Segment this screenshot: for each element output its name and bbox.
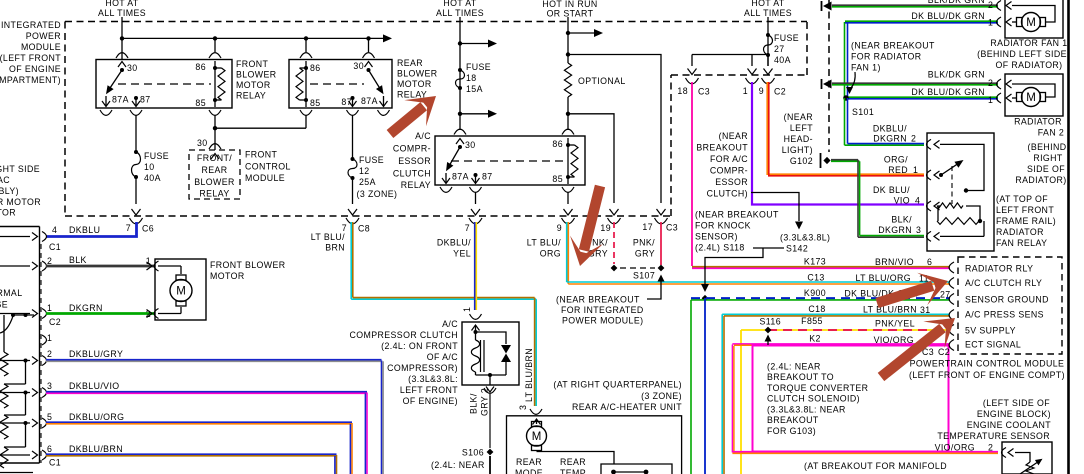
connector C2 pin 9 (759, 78, 786, 97)
svg-text:BLOWER: BLOWER (194, 177, 235, 187)
svg-text:7: 7 (465, 223, 470, 233)
connector pin 5 dkblu org arc (0, 412, 52, 428)
callout near breakout for knock sensor (695, 210, 779, 253)
wire f855 pnk yel 5v supply (741, 330, 950, 474)
svg-text:(AT BREAKOUT FOR MANIFOLD: (AT BREAKOUT FOR MANIFOLD (804, 461, 947, 471)
svg-text:17: 17 (642, 222, 653, 232)
svg-text:(AT TOP OF: (AT TOP OF (996, 194, 1048, 204)
svg-text:DK BLU/DK GRN: DK BLU/DK GRN (911, 87, 985, 97)
svg-text:FOR RADIATOR: FOR RADIATOR (851, 52, 921, 62)
callout near breakout for radiator fan 1 (846, 41, 935, 95)
svg-text:A/C: A/C (442, 319, 458, 329)
wire rear relay 87 to fuse 12 (352, 115, 354, 159)
svg-text:85: 85 (310, 98, 321, 108)
svg-text:2: 2 (911, 134, 916, 144)
svg-text:1: 1 (988, 95, 993, 105)
label thermal fuse (0, 288, 23, 310)
label front blower motor (210, 260, 286, 281)
splice S107 (611, 265, 665, 281)
svg-text:S107: S107 (633, 271, 655, 281)
svg-text:REAR: REAR (516, 457, 542, 467)
svg-text:REAR: REAR (560, 457, 586, 467)
label front blower motor relay (236, 59, 277, 101)
leader arrow callout to S116 (765, 335, 772, 346)
svg-text:LEFT FRONT: LEFT FRONT (400, 385, 458, 395)
svg-text:15A: 15A (466, 84, 483, 94)
svg-text:6: 6 (47, 444, 52, 454)
wire hot feed 4 vertical (767, 17, 769, 66)
fuse 12 25A 3 zone (348, 155, 397, 199)
svg-text:COMPR-: COMPR- (710, 166, 748, 176)
svg-text:30: 30 (197, 138, 208, 148)
svg-text:GRY 2: GRY 2 (480, 388, 490, 416)
svg-text:(LEFT SIDE OF: (LEFT SIDE OF (983, 398, 1050, 408)
wire dkblu vio (46, 381, 367, 474)
svg-text:6: 6 (927, 257, 932, 267)
connector C1 C2 dashed body on resistor block (40, 244, 42, 463)
svg-text:2: 2 (988, 443, 993, 453)
svg-text:DKBLU/ORG: DKBLU/ORG (69, 412, 124, 422)
svg-text:FOR G103): FOR G103) (767, 426, 816, 436)
svg-text:ESSOR: ESSOR (715, 177, 748, 187)
wire org red to radiator fan relay pin 1 (767, 82, 924, 176)
wire fan2 dk blu dk grn (848, 87, 998, 105)
label radiator fan 2 (1014, 117, 1067, 186)
svg-text:MOTOR: MOTOR (236, 80, 271, 90)
motor radiator fan 2 (997, 74, 1064, 116)
svg-text:3: 3 (916, 225, 921, 235)
svg-text:BLY): BLY) (0, 186, 19, 196)
svg-text:18: 18 (466, 73, 477, 83)
svg-text:BLK/: BLK/ (469, 393, 479, 414)
wire fuse 10 to C6 (132, 177, 141, 215)
svg-text:(NEAR BREAKOUT: (NEAR BREAKOUT (695, 210, 779, 220)
wire branch arrow run feed (568, 29, 603, 37)
svg-text:A/C: A/C (415, 131, 431, 141)
svg-text:87A: 87A (361, 96, 378, 106)
svg-text:COMPRESSOR): COMPRESSOR) (387, 363, 458, 373)
wire dkblu gry (46, 349, 383, 474)
wire branch arrow at 43 (460, 40, 497, 48)
svg-text:85: 85 (195, 98, 206, 108)
svg-text:RADIATOR): RADIATOR) (1015, 175, 1066, 185)
svg-text:BLK/: BLK/ (891, 215, 912, 225)
annotation red arrow 4 ac press sens (870, 305, 965, 391)
svg-text:C8: C8 (358, 224, 370, 234)
svg-text:(LEFT FRONT: (LEFT FRONT (0, 53, 61, 63)
svg-text:ECT SIGNAL: ECT SIGNAL (965, 340, 1021, 350)
svg-text:C3: C3 (698, 87, 710, 97)
svg-text:HOT AT: HOT AT (751, 0, 785, 8)
svg-text:2: 2 (47, 256, 52, 266)
relay front rear blower relay dashed box (189, 138, 240, 199)
annotation red arrow 3 ac clutch rly (872, 265, 953, 319)
svg-text:30: 30 (127, 63, 138, 73)
svg-text:CLUTCH SOLENOID): CLUTCH SOLENOID) (767, 394, 860, 404)
svg-text:87: 87 (341, 97, 352, 107)
svg-text:M: M (176, 286, 186, 298)
thermal fuse symbol (0, 313, 34, 333)
svg-text:C6: C6 (142, 224, 154, 234)
svg-text:DKBLU: DKBLU (69, 225, 100, 235)
label hot at all times feed 1 (98, 0, 146, 18)
svg-text:MODE: MODE (515, 468, 543, 474)
svg-text:BREAKOUT: BREAKOUT (696, 143, 748, 153)
svg-text:RADIATOR: RADIATOR (996, 227, 1044, 237)
svg-text:FUSE: FUSE (359, 155, 384, 165)
wire hot in run feed vertical (566, 17, 570, 63)
sensor engine coolant temperature sensor (1002, 442, 1053, 474)
component ac compressor clutch (462, 307, 519, 394)
wire blk gry 2 from clutch (469, 388, 491, 448)
svg-text:ORG: ORG (540, 249, 561, 259)
svg-text:27: 27 (774, 44, 785, 54)
svg-text:BREAKOUT: BREAKOUT (767, 415, 819, 425)
svg-text:87A: 87A (452, 172, 469, 182)
svg-text:1: 1 (47, 303, 52, 313)
svg-text:DK BLU/DK GRN: DK BLU/DK GRN (911, 11, 985, 21)
svg-text:OF ENGINE: OF ENGINE (9, 64, 61, 74)
connector C3 pin 18 (677, 78, 710, 97)
svg-text:LIGHT): LIGHT) (782, 145, 813, 155)
wire fuse 12 to C8 (348, 178, 357, 215)
svg-text:RADIATOR FAN 1: RADIATOR FAN 1 (990, 38, 1067, 48)
splice S106 (462, 448, 494, 474)
svg-text:G102: G102 (790, 156, 813, 166)
svg-text:FUSE: FUSE (774, 33, 799, 43)
connector pin 1 unused arc (42, 333, 52, 345)
diagram right border line (1067, 0, 1070, 474)
svg-text:5: 5 (47, 412, 52, 422)
svg-text:DK BLU/: DK BLU/ (873, 185, 910, 195)
label pcm pin functions (965, 264, 1049, 350)
label blk dkgrn 3 (878, 215, 921, 236)
label dkblu dkgrn 2 fan relay (873, 124, 916, 144)
label rear temp (560, 457, 586, 474)
svg-text:87: 87 (140, 95, 151, 105)
svg-text:3: 3 (47, 381, 52, 391)
connector pin 7 ac clutch feed (465, 218, 482, 233)
wire k2 vio org ect signal (732, 344, 998, 453)
svg-text:FAN RELAY: FAN RELAY (996, 238, 1047, 248)
box rear ac heater unit (507, 416, 682, 474)
svg-text:ALL TIMES: ALL TIMES (744, 8, 792, 18)
svg-text:DKBLU/: DKBLU/ (873, 124, 907, 134)
motor rear mode door actuator (515, 419, 547, 474)
wire pnk from C3 18 to brn vio k173 (692, 82, 950, 268)
wire fan2 blk dk grn (832, 70, 998, 89)
splice S116 (760, 317, 782, 334)
svg-text:SENSOR): SENSOR) (695, 232, 738, 242)
svg-text:(3 ZONE): (3 ZONE) (641, 391, 682, 401)
component blower motor resistor block (0, 227, 40, 464)
wire pnk gry solid from pin 17 (633, 222, 661, 265)
svg-text:LEFT FRONT: LEFT FRONT (996, 205, 1054, 215)
svg-text:BRN/VIO: BRN/VIO (875, 257, 914, 267)
svg-text:FRONT BLOWER: FRONT BLOWER (210, 260, 286, 270)
svg-text:K2: K2 (809, 334, 821, 344)
wire dkblu yel to ac compressor clutch (437, 222, 476, 310)
label hot at all times feed 2 (436, 0, 484, 18)
label at breakout for manifold (804, 461, 947, 471)
wire hot feed 2 vertical (458, 17, 462, 130)
wire lt blu brn from C8 to rear unit (311, 222, 536, 406)
resistor optional (564, 63, 625, 97)
inline connector fan2 blk dk grn (822, 79, 832, 89)
svg-text:ENGINE COOLANT: ENGINE COOLANT (967, 420, 1052, 430)
svg-text:2: 2 (988, 78, 993, 88)
splice S118 S142 on k900 (702, 295, 709, 302)
svg-text:RIGHT: RIGHT (1033, 153, 1063, 163)
svg-text:S142: S142 (786, 244, 808, 254)
label hot in run or start (542, 0, 597, 19)
connector pcm pins arcs (949, 262, 954, 351)
svg-text:9: 9 (557, 223, 562, 233)
svg-text:S101: S101 (852, 107, 874, 117)
component front blower motor (146, 256, 206, 320)
svg-text:REAR: REAR (397, 58, 423, 68)
svg-text:K900: K900 (804, 288, 826, 298)
label f855 pnk yel (801, 316, 915, 329)
wire front relay 87 to fuse 10 (135, 115, 137, 152)
bus B+ to front and rear blower relays (120, 34, 392, 52)
label blower motor resistor (0, 164, 41, 218)
label rear blower motor relay (397, 58, 438, 100)
relay ac compressor clutch relay (435, 129, 585, 192)
callout near breakout for integrated power module (556, 275, 665, 326)
svg-text:DKGRN: DKGRN (69, 303, 103, 313)
svg-text:OF ENGINE): OF ENGINE) (403, 396, 458, 406)
svg-text:M: M (1026, 17, 1036, 29)
svg-text:C2: C2 (774, 87, 786, 97)
connector pin 9 lt blu org (557, 218, 575, 233)
svg-text:BRN: BRN (325, 243, 345, 253)
svg-text:COMPR-: COMPR- (393, 144, 431, 154)
svg-text:VIO: VIO (894, 196, 910, 206)
wire dkblu org (46, 412, 352, 474)
svg-text:TEMP: TEMP (560, 468, 586, 474)
svg-text:REAR A/C-HEATER UNIT: REAR A/C-HEATER UNIT (572, 402, 682, 412)
svg-text:ENGINE BLOCK): ENGINE BLOCK) (977, 409, 1051, 419)
svg-text:86: 86 (552, 139, 563, 149)
fuse 27 40A (764, 33, 800, 65)
svg-text:(3.3L&3.8L: NEAR: (3.3L&3.8L: NEAR (767, 404, 846, 414)
callout 2.4l near s106 (431, 460, 485, 470)
svg-text:(NEAR BREAKOUT: (NEAR BREAKOUT (556, 295, 640, 305)
svg-text:M: M (532, 431, 542, 443)
label integrated power module (0, 20, 61, 85)
connector rear mode door pin 3 (518, 405, 542, 415)
svg-text:FOR KNOCK: FOR KNOCK (695, 221, 751, 231)
svg-text:4: 4 (52, 225, 57, 235)
svg-text:MOTOR: MOTOR (397, 79, 432, 89)
svg-text:K173: K173 (804, 257, 826, 267)
svg-text:LT BLU/BRN: LT BLU/BRN (524, 348, 534, 402)
svg-text:OPTIONAL: OPTIONAL (578, 76, 626, 86)
svg-text:MOTOR: MOTOR (210, 271, 245, 281)
integrated power module dashed boundary (65, 22, 807, 217)
relay rear blower motor relay (289, 53, 392, 116)
svg-text:1: 1 (913, 165, 918, 175)
svg-text:85: 85 (552, 174, 563, 184)
label k173 brn vio 6 (804, 257, 932, 268)
relay front blower motor relay (96, 53, 232, 116)
svg-text:(BEHIND LEFT SIDE: (BEHIND LEFT SIDE (977, 49, 1067, 59)
wire fuse 27 output bus to C3 C2 pins (688, 55, 773, 75)
svg-text:40A: 40A (774, 55, 791, 65)
svg-text:(3.3L&3.8L:: (3.3L&3.8L: (408, 374, 458, 384)
svg-text:COMPRESSOR CLUTCH: COMPRESSOR CLUTCH (350, 330, 458, 340)
svg-text:ORG/: ORG/ (884, 155, 908, 165)
svg-text:MPARTMENT): MPARTMENT) (0, 75, 61, 85)
svg-text:1: 1 (743, 86, 748, 96)
svg-text:SIDE OF: SIDE OF (1027, 164, 1065, 174)
label lt blu brn vertical (524, 348, 534, 402)
svg-text:2: 2 (988, 0, 993, 10)
svg-text:(2.4L: NEAR: (2.4L: NEAR (431, 460, 485, 470)
svg-text:7: 7 (126, 223, 131, 233)
label engine coolant temperature sensor (937, 398, 1051, 441)
svg-text:FRAME RAIL): FRAME RAIL) (996, 216, 1056, 226)
wire run feed to C3 pin 17 (568, 55, 666, 216)
svg-text:AC: AC (0, 175, 10, 185)
svg-text:CONTROL: CONTROL (245, 162, 291, 172)
svg-text:ALL TIMES: ALL TIMES (98, 8, 146, 18)
svg-text:FRONT: FRONT (245, 150, 278, 160)
connector C3 pin 17 (642, 218, 678, 233)
svg-text:9: 9 (759, 86, 764, 96)
svg-text:DKBLU/GRY: DKBLU/GRY (69, 349, 123, 359)
wire hot feed 1 to bus (121, 17, 123, 59)
svg-text:BLK/DK GRN: BLK/DK GRN (928, 0, 985, 5)
connector pin 6 dkblu brn arc (0, 444, 52, 460)
svg-text:2: 2 (47, 349, 52, 359)
wire pnk gry dashed from pin 19 (586, 222, 614, 264)
connector C2 pin 1 (743, 78, 759, 96)
svg-text:(2.4L) S118: (2.4L) S118 (695, 243, 745, 253)
svg-text:86: 86 (310, 63, 321, 73)
svg-text:RADIATOR: RADIATOR (1014, 117, 1062, 127)
svg-text:19: 19 (600, 223, 611, 233)
svg-text:INTEGRATED: INTEGRATED (1, 20, 61, 30)
label powertrain control module (909, 359, 1065, 381)
svg-text:RED: RED (888, 165, 908, 175)
fuse 18 15A (456, 62, 492, 94)
svg-text:PNK/: PNK/ (633, 238, 655, 248)
svg-text:BLK: BLK (69, 255, 87, 265)
svg-text:OF A/C: OF A/C (427, 352, 458, 362)
svg-text:ALL TIMES: ALL TIMES (436, 8, 484, 18)
svg-text:FAN 2: FAN 2 (1038, 128, 1064, 138)
svg-text:C2: C2 (938, 347, 950, 357)
annotation red arrow 2 pnk gry (564, 182, 617, 270)
svg-text:40A: 40A (144, 173, 161, 183)
svg-text:C1: C1 (49, 458, 61, 468)
svg-text:HEAD-: HEAD- (784, 134, 813, 144)
callout near breakout for ac compressor clutch (696, 131, 803, 230)
svg-text:RELAY: RELAY (236, 91, 266, 101)
svg-text:(NEAR BREAKOUT: (NEAR BREAKOUT (851, 41, 935, 51)
connector pin 1 dkgrn arc (0, 303, 61, 327)
label hot at all times feed 4 (744, 0, 792, 18)
svg-text:DKGRN: DKGRN (873, 134, 907, 144)
box rear temp actuator (537, 452, 673, 474)
svg-text:VIO/ORG: VIO/ORG (874, 335, 914, 345)
svg-text:POWER: POWER (26, 31, 61, 41)
wire blk to front blower motor (46, 255, 155, 266)
svg-text:(2.4L: NEAR: (2.4L: NEAR (767, 362, 821, 372)
svg-text:A/C PRESS SENS: A/C PRESS SENS (965, 310, 1044, 320)
label C1 bottom (49, 458, 61, 468)
svg-text:VIO/ORG: VIO/ORG (935, 443, 975, 453)
wire dkblu brn (46, 444, 337, 474)
wire fan1 dk blu dk grn (845, 11, 999, 98)
label org red 1 (884, 155, 918, 176)
svg-text:87: 87 (482, 172, 493, 182)
svg-text:18: 18 (677, 86, 688, 96)
fuse 10 40A (132, 150, 170, 183)
svg-text:(NEAR: (NEAR (719, 131, 748, 141)
connector pin 2 blk arc (0, 256, 52, 271)
wire fan1 blk dk grn (832, 0, 998, 10)
svg-text:12: 12 (359, 166, 370, 176)
connector pin 3 dkblu vio arc (0, 381, 52, 398)
svg-text:DKBLU/VIO: DKBLU/VIO (69, 381, 120, 391)
svg-text:(LEFT FRONT OF ENGINE COMPT): (LEFT FRONT OF ENGINE COMPT) (909, 370, 1065, 380)
svg-text:3: 3 (518, 405, 528, 410)
svg-text:BLOWER: BLOWER (397, 69, 438, 79)
svg-text:SE: SE (0, 300, 8, 310)
svg-text:5V SUPPLY: 5V SUPPLY (965, 326, 1016, 336)
svg-text:RADIATOR RLY: RADIATOR RLY (965, 264, 1033, 274)
label s142 3.3l 3.8l (701, 233, 830, 293)
svg-text:YEL: YEL (453, 249, 471, 259)
svg-text:(NEAR: (NEAR (784, 112, 813, 122)
ground G102 label and inline connector (782, 112, 831, 168)
label pcm connectors c3 c2 (922, 347, 950, 357)
label c18 lt blu brn 31 (808, 304, 930, 315)
svg-text:FOR A/C: FOR A/C (710, 154, 748, 164)
svg-text:RELAY: RELAY (401, 180, 431, 190)
connector pin 19 pnk gry (600, 218, 620, 233)
svg-text:FRONT: FRONT (236, 59, 269, 69)
svg-text:OF RADIATOR): OF RADIATOR) (995, 60, 1062, 70)
svg-text:TOR: TOR (0, 208, 16, 218)
svg-text:MODULE: MODULE (245, 173, 285, 183)
svg-text:2: 2 (146, 309, 151, 319)
label k2 vio org (809, 334, 914, 346)
svg-text:S106: S106 (462, 448, 484, 458)
label at right quarterpanel rear ac heater unit (553, 380, 682, 413)
svg-text:1: 1 (47, 333, 52, 343)
svg-text:RELAY: RELAY (199, 189, 229, 199)
svg-text:LT BLU/ORG: LT BLU/ORG (856, 273, 912, 283)
svg-text:1: 1 (462, 307, 472, 312)
svg-text:C13: C13 (807, 273, 824, 283)
connector C6 pin 7 (126, 218, 154, 234)
svg-text:1: 1 (988, 18, 993, 28)
svg-text:ESSOR: ESSOR (398, 156, 431, 166)
wire dk blu vio to radiator fan relay pin 4 (752, 82, 924, 205)
label ac compressor clutch relay (393, 131, 431, 190)
wire optional output (566, 97, 570, 130)
label vio org 2 ect (935, 443, 994, 453)
svg-text:POWERTRAIN CONTROL MODULE: POWERTRAIN CONTROL MODULE (910, 359, 1065, 369)
svg-text:C2: C2 (49, 317, 61, 327)
wire k900 dk blu dk grn sensor ground (691, 298, 950, 474)
wire c18 lt blu brn ac press sens (722, 314, 950, 474)
label ac compressor clutch (350, 319, 459, 406)
